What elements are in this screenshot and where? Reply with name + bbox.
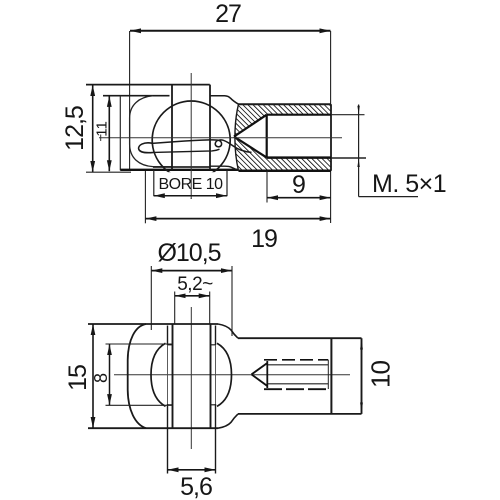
svg-text:10: 10 — [366, 361, 396, 388]
top view body bottom edge — [120, 169, 240, 171]
slot ledge ticks bottom — [168, 404, 216, 406]
dimension 11 line — [108, 96, 110, 171]
dimension 19 line — [145, 218, 330, 220]
bottom view body top flat — [88, 323, 218, 325]
dimension 5,6 line — [168, 469, 216, 471]
bottom view transition top right — [218, 324, 238, 338]
svg-text:Ø10,5: Ø10,5 — [157, 239, 220, 267]
drill cone upper line — [234, 115, 267, 137]
slot ledge ticks top — [168, 344, 216, 346]
thread hole end vertical (bottom view) — [266, 361, 268, 388]
svg-text:12,5: 12,5 — [61, 106, 89, 151]
5,2 left extension / slot edge upper — [174, 292, 176, 324]
thread extension line bottom — [331, 157, 366, 159]
M 5x1 arrows — [357, 106, 359, 167]
dimension 8 line — [109, 344, 111, 405]
dia 10,5 right extension — [231, 266, 233, 336]
top view body step edge (11 level) left — [103, 95, 170, 97]
bottom view body bottom flat — [88, 427, 218, 429]
dimension 19 left extension — [144, 171, 146, 223]
retaining clip lower strand — [154, 149, 220, 152]
top view body left edge — [119, 96, 121, 171]
hidden thread hole top (bottom view) — [264, 359, 328, 361]
ball arc left (bottom view) — [151, 343, 166, 406]
dimension 9 left extension — [266, 171, 268, 203]
dimension 27 line — [130, 30, 331, 32]
threaded hole white cutout — [234, 115, 331, 158]
shank bottom line — [238, 413, 362, 415]
top view bottom step edge right — [210, 166, 239, 170]
svg-text:15: 15 — [64, 365, 92, 391]
dimension 27 left extension line — [129, 31, 131, 170]
5,2 right extension / slot edge upper — [209, 292, 211, 324]
dimension 27 / 19 right extension line — [330, 31, 332, 223]
slot tab right (below body) — [215, 404, 217, 474]
M 5x1 leader horizontal — [359, 196, 418, 198]
dimension 9 line — [267, 197, 331, 199]
svg-text:5,6: 5,6 — [180, 473, 212, 500]
slot edge left (bottom view) — [172, 324, 174, 429]
vertical centerline (top view) — [190, 73, 192, 199]
svg-text:8: 8 — [91, 373, 111, 383]
vertical centerline through BORE box — [190, 172, 192, 199]
BORE 10 left extension — [153, 170, 155, 196]
centerline end tick — [100, 135, 102, 142]
drill cone lower (bottom view) — [252, 374, 268, 386]
ball arc right (bottom view) — [217, 343, 232, 406]
cavity bottom edge — [153, 166, 210, 168]
M 5x1 leader vertical — [358, 105, 360, 197]
boss outline bottom — [239, 170, 332, 173]
BORE 10 right extension — [226, 170, 228, 196]
svg-text:19: 19 — [251, 225, 277, 253]
white mask under body for BORE area — [131, 172, 261, 198]
slot tab left (below body) — [167, 404, 169, 474]
threaded hole bottom edge — [267, 156, 331, 159]
shank top line — [238, 337, 362, 339]
svg-text:M. 5×1: M. 5×1 — [372, 170, 446, 198]
dimension 15 line — [92, 324, 94, 428]
top view body top edge with 12,5 extension — [86, 84, 210, 86]
bottom view vertical centerline — [190, 307, 192, 449]
dimension 12,5 bottom extension — [86, 171, 131, 173]
slot edge right (top view) — [209, 85, 211, 170]
shank right face / dimension 10 line — [361, 338, 363, 414]
slot outer edge right upper — [215, 326, 217, 346]
svg-text:27: 27 — [215, 0, 241, 28]
drill cone lower line — [234, 137, 267, 158]
thread minor bottom (bottom view) — [267, 383, 328, 385]
threaded hole top edge — [267, 114, 331, 116]
top view body step edge right — [210, 96, 239, 105]
dia 10,5 left extension — [150, 266, 152, 330]
slot edge right (bottom view) — [210, 324, 212, 429]
thread minor top (bottom view) — [267, 364, 328, 366]
thread extension line top — [331, 114, 365, 116]
bottom view transition bottom right — [218, 414, 238, 428]
hidden thread hole bottom (bottom view) — [264, 388, 328, 390]
boss right face — [330, 104, 332, 171]
dimension 10 arrows — [360, 339, 363, 413]
slot outer edge faint middle right — [215, 345, 217, 404]
threaded hole end face — [266, 115, 268, 158]
dimension 12,5 line — [92, 85, 94, 172]
svg-text:9: 9 — [292, 171, 306, 199]
hole right end tick — [327, 360, 329, 389]
socket cavity outline — [130, 96, 172, 167]
dimension dia 10,5 line — [151, 270, 232, 272]
BORE 10 dimension line — [154, 195, 227, 197]
boss left concave edge — [235, 104, 239, 171]
bottom view horizontal centerline — [114, 374, 350, 376]
shank end cap line — [330, 338, 332, 414]
retaining clip upper strand and right hook — [152, 140, 252, 153]
threaded boss hatched section — [235, 104, 331, 171]
drill cone upper (bottom view) — [252, 363, 268, 374]
bottom view body left bulge — [128, 324, 146, 428]
dimension 5,2 line — [175, 295, 210, 297]
svg-text:5,2~: 5,2~ — [177, 274, 213, 295]
ball circle (top view) — [152, 101, 230, 179]
dimension 8 top extension — [106, 343, 173, 345]
slot outer edge left upper — [167, 326, 169, 346]
slot edge left (top view) — [171, 85, 173, 170]
svg-text:BORE 10: BORE 10 — [158, 176, 223, 193]
retaining clip left loop — [139, 143, 154, 153]
boss outline top — [239, 103, 332, 105]
svg-text:11: 11 — [94, 121, 111, 137]
slot outer edge faint middle left — [167, 345, 169, 404]
dimension 8 bottom extension — [106, 404, 173, 406]
horizontal centerline (top view) — [99, 137, 342, 139]
